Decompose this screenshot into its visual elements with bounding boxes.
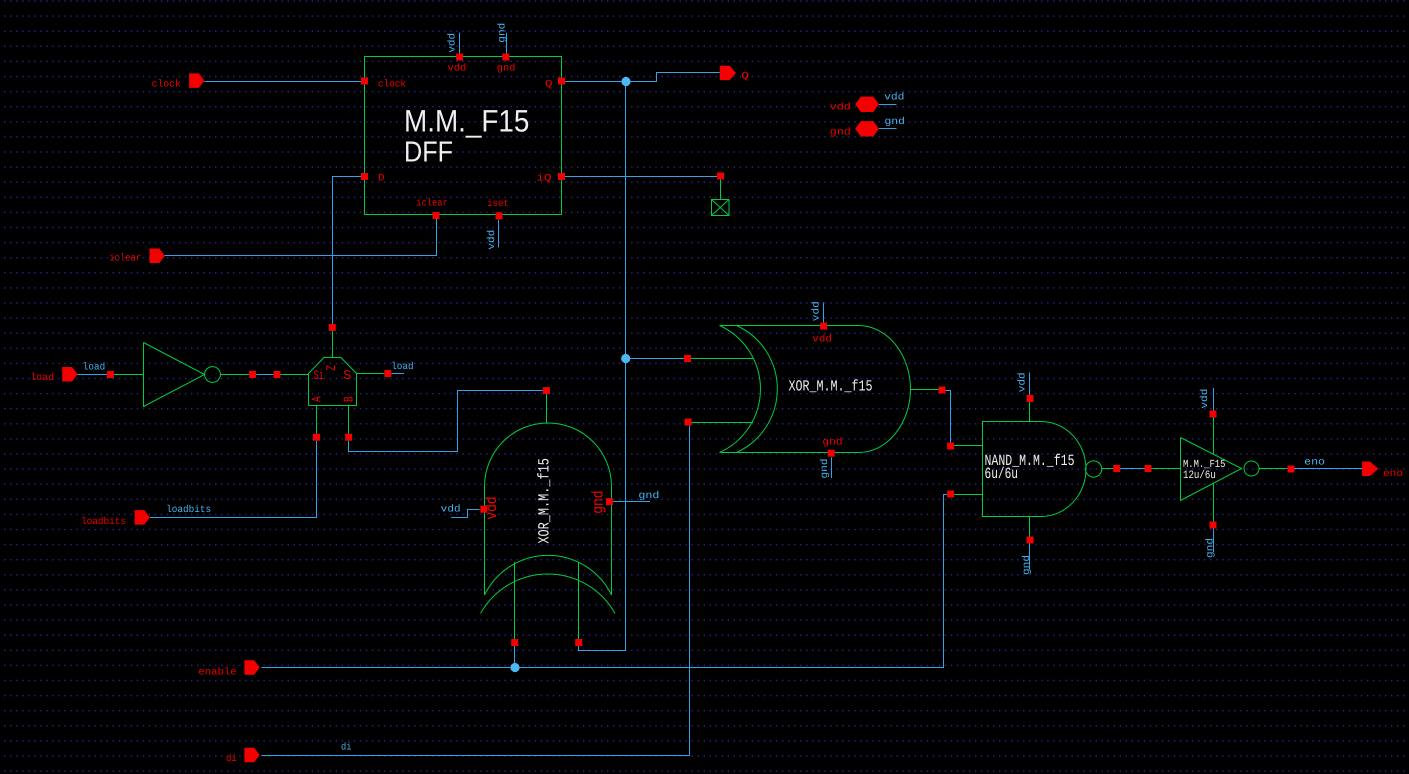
svg-text:gnd: gnd xyxy=(497,23,509,43)
svg-text:loadbits: loadbits xyxy=(81,516,126,528)
svg-text:vdd: vdd xyxy=(486,230,498,250)
svg-text:vdd: vdd xyxy=(1016,372,1028,392)
svg-text:gnd: gnd xyxy=(819,459,831,479)
svg-text:M.M._F15: M.M._F15 xyxy=(404,104,529,139)
svg-text:di: di xyxy=(226,753,237,765)
svg-text:load: load xyxy=(30,372,54,384)
svg-text:12u/6u: 12u/6u xyxy=(1183,469,1216,482)
svg-text:vdd: vdd xyxy=(884,91,904,103)
svg-text:6u/6u: 6u/6u xyxy=(985,466,1019,483)
svg-text:iset: iset xyxy=(487,198,509,210)
svg-text:vdd: vdd xyxy=(830,102,851,114)
svg-text:iclear: iclear xyxy=(416,197,447,209)
svg-text:enable: enable xyxy=(198,667,236,679)
svg-text:gnd: gnd xyxy=(885,116,905,128)
svg-text:vdd: vdd xyxy=(483,496,501,519)
svg-text:clock: clock xyxy=(378,79,406,91)
svg-text:S: S xyxy=(343,368,351,383)
svg-text:gnd: gnd xyxy=(822,436,842,448)
svg-text:XOR_M.M._f15: XOR_M.M._f15 xyxy=(535,458,553,544)
svg-text:loadbits: loadbits xyxy=(166,504,211,516)
svg-text:vdd: vdd xyxy=(446,33,458,53)
svg-text:Q: Q xyxy=(545,80,553,91)
svg-text:Si: Si xyxy=(314,368,324,383)
svg-text:eno: eno xyxy=(1304,458,1325,469)
svg-text:di: di xyxy=(341,742,352,754)
svg-text:A: A xyxy=(309,396,324,402)
svg-text:gnd: gnd xyxy=(590,491,608,514)
svg-text:gnd: gnd xyxy=(830,126,851,138)
svg-text:vdd: vdd xyxy=(811,301,823,321)
svg-text:vdd: vdd xyxy=(441,504,461,516)
svg-text:eno: eno xyxy=(1383,469,1403,480)
svg-text:DFF: DFF xyxy=(404,137,453,169)
svg-text:XOR_M.M._f15: XOR_M.M._f15 xyxy=(789,378,873,396)
svg-text:iQ: iQ xyxy=(537,173,552,185)
svg-text:Q: Q xyxy=(741,72,749,83)
svg-text:vdd: vdd xyxy=(812,333,832,345)
svg-text:gnd: gnd xyxy=(1205,538,1217,558)
svg-text:gnd: gnd xyxy=(638,490,659,502)
svg-text:clock: clock xyxy=(152,79,181,91)
svg-text:B: B xyxy=(341,396,356,402)
svg-text:Z: Z xyxy=(324,365,339,371)
svg-text:vdd: vdd xyxy=(1199,389,1211,409)
svg-text:gnd: gnd xyxy=(1021,555,1033,575)
svg-text:vdd: vdd xyxy=(448,62,467,74)
svg-text:load: load xyxy=(83,362,105,374)
svg-text:load: load xyxy=(391,361,413,373)
svg-text:gnd: gnd xyxy=(497,62,516,74)
svg-text:D: D xyxy=(378,173,385,184)
svg-text:iclear: iclear xyxy=(109,253,141,265)
